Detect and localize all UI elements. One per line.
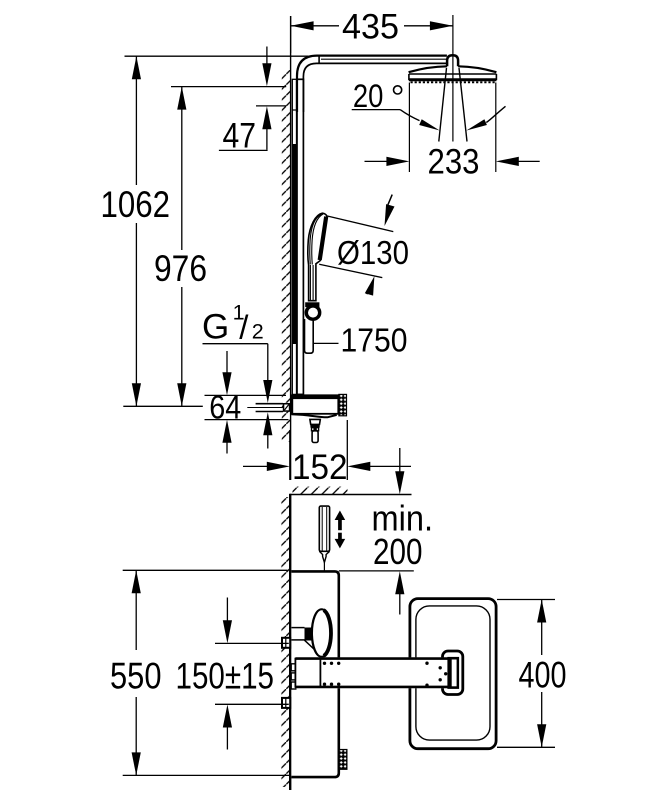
screwdriver shaft inner lines <box>321 507 323 551</box>
G 1/2 leader upper arrow <box>267 344 269 383</box>
supply elbow block (upper) <box>283 403 291 412</box>
hand shower inner curve 1 <box>310 214 322 264</box>
dim terminal line at supply center <box>123 405 203 407</box>
outlet dark band <box>310 424 319 427</box>
head holder outer plate <box>443 651 463 695</box>
dim 152 left extension <box>289 430 291 480</box>
outlet collar <box>312 428 319 431</box>
control knob disk <box>312 609 331 657</box>
screwdriver taper <box>319 551 329 562</box>
hand shower head outline <box>308 213 327 301</box>
dia130 lower arrow <box>367 289 369 294</box>
head shower spray face dotted line <box>411 81 495 83</box>
hand shower face thick band <box>320 217 327 261</box>
supply elbow upper (lower drawing) <box>282 638 290 648</box>
spray cone right line <box>459 68 467 142</box>
arm screw dots left <box>323 662 326 665</box>
spray angle leader right <box>486 106 505 122</box>
svg-text:G: G <box>202 308 229 347</box>
dim 152 right extension <box>346 420 348 480</box>
dim 550 line upper <box>135 570 137 650</box>
ref line 47 bottom <box>256 105 286 107</box>
hand shower inner curve 2 <box>312 214 323 265</box>
svg-text:233: 233 <box>428 142 480 182</box>
shower arm top edge <box>295 657 447 660</box>
wall hatching (lower drawing) <box>281 497 290 787</box>
head shower dome <box>409 66 497 72</box>
knob support diagonal <box>305 640 322 657</box>
dim 976 line upper <box>181 87 183 250</box>
shower arm bottom edge <box>295 686 447 689</box>
dim 435 line left part <box>291 25 339 27</box>
control knob stem <box>305 628 312 641</box>
supply elbow lower (lower drawing) <box>282 698 290 708</box>
wall glide strip outline <box>292 79 296 394</box>
ref line top of system (1062) <box>125 55 309 57</box>
pipe joint tick at bend <box>297 78 303 80</box>
spray head top view outer <box>410 599 496 749</box>
supply elbow lower inner <box>285 698 287 708</box>
dim 400 line lower <box>541 692 543 747</box>
shower pipe bend inner edge / arm bottom <box>303 63 447 112</box>
outlet collar center <box>313 427 316 431</box>
hand shower holder clamp <box>305 302 319 307</box>
dim 47 lower arrow <box>266 126 268 150</box>
spray head top view inner face <box>416 606 490 740</box>
ref line 64 bottom <box>205 419 289 421</box>
dim 550 top ref line <box>123 569 288 571</box>
control knob face line <box>311 610 320 657</box>
head shower rim right side <box>495 74 497 80</box>
svg-text:152: 152 <box>292 447 348 487</box>
hand shower handle inner lines <box>309 265 311 301</box>
min 200 lower arrow <box>399 591 401 615</box>
wall line (upper drawing) <box>290 16 292 480</box>
supply pipe bottom line <box>256 411 283 413</box>
shower rail tube <box>297 79 303 394</box>
svg-text:Ø130: Ø130 <box>337 235 409 272</box>
min clearance top line <box>290 494 411 496</box>
svg-text:150±15: 150±15 <box>176 655 275 697</box>
arm sleeve joint <box>318 56 320 64</box>
head shower rim left side <box>408 74 410 80</box>
supply elbow upper inner <box>285 638 287 648</box>
shower arm left bracket <box>295 659 320 687</box>
shelf body left edge thick <box>290 398 293 414</box>
shelf underside <box>292 414 337 417</box>
wall line (lower drawing) <box>289 494 291 790</box>
svg-text:20: 20 <box>353 78 384 114</box>
dim 150 lower arrow <box>226 725 228 750</box>
svg-text:435: 435 <box>342 7 399 47</box>
dim 1062 line upper <box>135 56 137 185</box>
dim 152 left part <box>243 465 269 467</box>
head shower rim top line <box>409 73 497 75</box>
svg-text:976: 976 <box>154 247 207 289</box>
dim 233 right extension <box>495 83 497 173</box>
shelf right hatched block <box>339 394 347 415</box>
label 47 underline <box>219 149 268 151</box>
ref line 64 top <box>205 394 287 396</box>
hatching above top line <box>293 487 348 495</box>
dia130 upper arrow <box>388 195 392 205</box>
wall hatching (upper drawing) <box>282 70 291 442</box>
mixer body (side view) <box>291 571 338 777</box>
min 200 upper arrow <box>399 448 401 475</box>
shower arm body <box>295 657 447 688</box>
dim 233 left part <box>365 160 387 162</box>
dim 150 bottom ref line <box>215 703 289 705</box>
svg-text:47: 47 <box>223 117 257 156</box>
dim 435 left extension <box>290 16 292 53</box>
dim dia130 lower line <box>319 264 382 277</box>
supply pipe top line <box>256 403 283 405</box>
label G 1/2 underline <box>203 343 268 345</box>
hand shower holder ring <box>306 306 319 319</box>
shower pipe bend and horizontal arm outer edge <box>297 56 447 112</box>
svg-text:1062: 1062 <box>101 183 171 225</box>
arm screw dots right cluster <box>425 662 428 665</box>
svg-text:/: / <box>239 308 249 345</box>
dim 47 upper arrow <box>266 47 268 67</box>
dim 550 bottom ref line <box>123 774 289 776</box>
dim 400 line upper <box>541 600 543 656</box>
supply elbow diagonal <box>284 405 289 411</box>
shower arm inner line <box>321 58 447 60</box>
knob support lower line <box>292 639 305 641</box>
glide strip dark bar <box>293 144 297 344</box>
dim 1062 line lower <box>135 223 137 406</box>
knob support upper line <box>292 627 305 629</box>
dim 550 line lower <box>135 697 137 775</box>
svg-text:64: 64 <box>209 390 241 427</box>
control knob rim thick arc <box>324 610 331 656</box>
svg-text:2: 2 <box>252 320 264 344</box>
min 200 bottom extension <box>339 570 414 572</box>
wall anchor squares <box>291 664 296 671</box>
dim 64 upper arrow <box>226 351 228 376</box>
adjust double arrow up <box>335 511 346 521</box>
shower hose <box>305 319 314 353</box>
glide strip tick <box>292 109 296 111</box>
spray angle leader left <box>400 110 419 121</box>
dim 150 upper arrow <box>226 598 228 624</box>
shelf body <box>292 398 339 414</box>
shelf top thick edge <box>290 394 339 398</box>
dim 233 left extension <box>408 83 410 173</box>
label 20 deg underline <box>352 109 400 111</box>
body hatched block (lower) <box>339 750 347 770</box>
dim 400 top extension <box>497 599 555 601</box>
dim 150 top ref line <box>215 642 289 644</box>
head holder innermost slot <box>452 660 457 687</box>
head holder inner thick rect <box>447 657 459 689</box>
supply pipe centerline <box>247 407 283 409</box>
dim 233 right part <box>518 160 540 162</box>
head shower rim bottom thick line <box>409 78 497 81</box>
dim dia130 upper line <box>327 216 393 232</box>
svg-text:550: 550 <box>110 655 162 697</box>
supply elbow inner square <box>284 405 289 411</box>
dim 976 line lower <box>181 287 183 406</box>
adjust double arrow down <box>335 539 346 549</box>
screwdriver tip line <box>323 562 325 570</box>
screwdriver shaft <box>319 506 329 551</box>
dim 400 bottom extension <box>497 746 555 748</box>
spray cone left line <box>439 68 447 142</box>
head shower ball housing <box>447 55 458 66</box>
svg-text:1750: 1750 <box>341 322 408 359</box>
dim 152 right part <box>368 465 411 467</box>
G 1/2 leader lower arrow <box>267 432 269 449</box>
ref line 976 top / 47 top <box>171 86 286 88</box>
dim 64 lower arrow <box>226 440 228 454</box>
spray centerline <box>452 15 454 142</box>
outlet nut <box>310 419 320 424</box>
svg-text:200: 200 <box>373 531 423 572</box>
hose leader line <box>314 342 339 344</box>
dim 435 line right part <box>404 25 453 27</box>
svg-text:400: 400 <box>519 655 567 696</box>
outlet tube <box>312 431 318 443</box>
